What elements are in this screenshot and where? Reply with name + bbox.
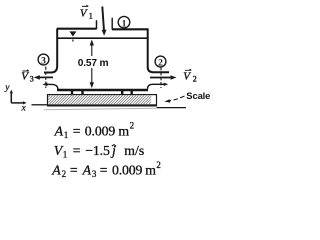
outlet 3 bottom wall	[45, 84, 58, 89]
water surface line	[58, 37, 147, 39]
label V2	[183, 69, 197, 83]
V1 arrowhead (down)	[102, 30, 107, 36]
V2 arrowhead (right)	[171, 75, 177, 80]
x axis	[11, 102, 24, 104]
svg-text:m/s: m/s	[124, 143, 144, 158]
station circle 3	[38, 54, 49, 66]
svg-text:3: 3	[41, 56, 46, 66]
outlet3 lower short arrow	[45, 84, 52, 85]
tank leg 1	[71, 91, 73, 96]
tank leg 4	[130, 91, 132, 96]
svg-text:A: A	[82, 162, 92, 177]
tank top edge right segment	[112, 28, 149, 30]
svg-text:A: A	[54, 123, 64, 138]
faint shadow under plate	[44, 108, 156, 110]
tank leg 3	[121, 91, 123, 96]
free surface symbol triangle	[70, 32, 75, 36]
svg-text:V: V	[80, 7, 88, 19]
equation line 3: A2 = A3 = 0.009 m2	[51, 160, 161, 179]
svg-text:1: 1	[63, 150, 68, 160]
svg-text:2: 2	[158, 58, 163, 68]
equation line 2: V1 = -1.5j m/s	[54, 143, 144, 160]
svg-text:=: =	[73, 123, 81, 138]
svg-text:A: A	[51, 162, 61, 177]
svg-text:−1.5: −1.5	[85, 143, 110, 158]
svg-text:x: x	[21, 103, 27, 113]
tank top edge left segment	[57, 28, 96, 30]
tank leg 2	[81, 91, 83, 96]
station 2 dashed plane	[160, 67, 162, 88]
tank left wall	[44, 28, 57, 72]
svg-text:0.009: 0.009	[85, 123, 116, 138]
svg-text:=: =	[70, 162, 78, 177]
tank right wall	[148, 29, 169, 73]
dimension line upper	[91, 44, 93, 56]
svg-text:V: V	[21, 71, 29, 83]
station 3 dashed plane	[45, 67, 47, 89]
dimension arrow up	[90, 40, 94, 46]
jet right tick	[111, 18, 113, 30]
outlet 2 bottom wall step	[148, 84, 167, 89]
svg-text:0.009: 0.009	[112, 162, 143, 177]
svg-text:3: 3	[92, 169, 97, 179]
ground line left of plate	[32, 104, 48, 106]
tank bottom	[57, 89, 148, 92]
dimension arrow down	[90, 82, 94, 88]
svg-text:2: 2	[156, 160, 161, 170]
svg-text:2: 2	[130, 120, 135, 130]
x axis arrowhead	[23, 101, 27, 104]
svg-text:=: =	[73, 143, 81, 158]
svg-text:m: m	[118, 123, 129, 138]
equation line 1: A1 = 0.009 m2	[54, 120, 135, 140]
dimension line lower	[91, 68, 93, 84]
outlet2 lower short arrowhead	[164, 83, 169, 86]
V3 arrow shaft	[39, 76, 54, 78]
station circle 2	[155, 56, 166, 68]
V2 arrow shaft	[150, 77, 171, 79]
svg-text:2: 2	[62, 169, 67, 179]
y axis	[10, 92, 12, 103]
scale leader dashed curve	[169, 96, 185, 101]
svg-text:2: 2	[193, 74, 197, 83]
svg-text:y: y	[4, 83, 10, 93]
ground line right of plate	[157, 107, 187, 109]
scale platform plate	[48, 95, 157, 107]
V3 arrowhead (left)	[34, 75, 40, 80]
station circle 1	[118, 16, 130, 29]
y axis arrowhead	[10, 90, 13, 94]
svg-text:=: =	[100, 162, 108, 177]
label V3	[21, 70, 34, 84]
svg-text:3: 3	[30, 75, 34, 84]
svg-text:1: 1	[64, 130, 69, 140]
V1 jet arrow shaft	[102, 7, 104, 31]
svg-text:m: m	[145, 162, 156, 177]
svg-text:0.57 m: 0.57 m	[78, 58, 109, 69]
svg-text:V: V	[183, 70, 191, 82]
scale leader arrowhead	[164, 99, 170, 102]
svg-text:1: 1	[122, 19, 127, 29]
jet left tick	[96, 20, 98, 29]
free surface symbol tick	[72, 40, 74, 42]
label V1	[80, 5, 93, 20]
svg-text:1: 1	[89, 11, 93, 20]
svg-text:Scale: Scale	[186, 90, 210, 101]
